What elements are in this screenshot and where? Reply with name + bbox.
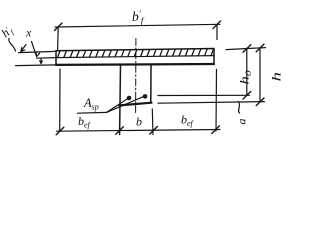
label a rotated at bottom right — [235, 119, 249, 125]
flange outline (top slab of T-section) — [56, 49, 214, 65]
wire: leader to right rebar dot — [107, 95, 147, 112]
svg-text:Asp: Asp — [83, 96, 99, 112]
svg-text:h0: h0 — [238, 70, 254, 85]
wire: right extension line at rebar level (for h0) — [158, 94, 250, 96]
wire: bottom dimension line (bef, b, bef) — [57, 130, 221, 132]
hatch: compression zone x inside flange — [51, 49, 214, 58]
rebar dot left (prestressed reinforcement) — [127, 96, 132, 101]
tick at bottom of h0 — [243, 91, 251, 99]
tick at right end of b'f dimension — [213, 21, 221, 29]
small arrow onto flange bottom line — [40, 59, 43, 64]
web right edge — [150, 64, 152, 102]
centerline of web (dash-dot) — [135, 39, 137, 115]
svg-text:b: b — [136, 115, 142, 129]
svg-text:bef: bef — [181, 113, 195, 129]
leader squiggle for dimension a — [239, 102, 240, 114]
svg-text:b′f: b′f — [132, 9, 145, 26]
wire: web bottom edge — [120, 103, 152, 106]
wire: right extension line at beam bottom (for h) — [158, 102, 265, 104]
tick at x=215.5 on bottom dimension — [212, 126, 220, 134]
svg-text:a: a — [235, 119, 249, 125]
wire: flange bottom edge — [56, 63, 214, 66]
svg-text:bef: bef — [78, 114, 92, 130]
label h'f rotated at top left — [0, 23, 16, 41]
tick at x=119.5 on bottom dimension — [116, 127, 124, 135]
label h0 rotated on right — [238, 70, 254, 85]
wire: bottom line of compression-zone hatch band — [56, 56, 214, 58]
svg-text:h′f: h′f — [0, 23, 16, 41]
tick at top of h0 — [243, 45, 251, 53]
wire: leader shelf under Asp label — [78, 111, 107, 114]
left extension line at hatch bottom (x dim) — [37, 57, 57, 60]
wire: leader to left rebar dot — [107, 97, 131, 113]
svg-text:x: x — [25, 26, 32, 40]
arrow for h'f dimension pointing to flange top line — [21, 45, 26, 52]
wire: extension line at flange right edge down to bottom dim — [215, 69, 218, 131]
wire: top dimension line b'f — [55, 24, 220, 27]
rebar dot right (prestressed reinforcement) — [143, 94, 148, 99]
wire: extension line right of web (x=152.5) — [151, 109, 154, 135]
web left edge (continues down as extension line) — [119, 65, 122, 135]
dimension line h (vertical) — [259, 48, 261, 102]
label h rotated on right — [270, 72, 284, 82]
tick at x=153.5 on bottom dimension — [150, 126, 158, 134]
tick at top of h — [256, 44, 264, 52]
wire: left extension line of b'f dimension — [57, 27, 60, 51]
left extension line at flange top (h'f / x dims) — [19, 51, 57, 52]
tick at x=60 on bottom dimension — [56, 127, 64, 135]
wire: top right extension line (for h0 and h) — [226, 48, 266, 50]
left extension line at flange bottom (h'f dim) — [16, 64, 57, 67]
svg-text:h: h — [270, 72, 284, 82]
arrow for x dimension — [32, 42, 40, 57]
wire: right extension line of b'f dimension — [216, 25, 218, 40]
wire: extension line below flange left edge — [59, 69, 61, 132]
tick at left end of b'f dimension — [55, 23, 63, 31]
tick at bottom of h — [256, 98, 264, 106]
dimension line h0 (vertical) — [246, 49, 248, 96]
leader squiggle from h'f label — [9, 39, 16, 52]
